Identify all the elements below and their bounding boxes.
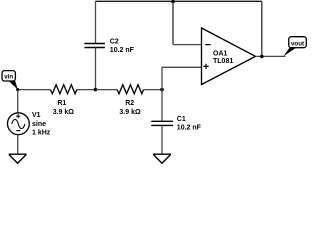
net label vin <box>2 71 18 90</box>
svg-text:R2: R2 <box>125 100 134 107</box>
svg-text:C2: C2 <box>110 39 119 46</box>
wire: R2 to node B <box>144 89 163 91</box>
wire: input node to R1 <box>18 89 51 91</box>
svg-text:3.9 kΩ: 3.9 kΩ <box>53 109 75 116</box>
wire: R1 to node A <box>77 89 96 91</box>
wire: C2 bottom lead <box>95 48 97 90</box>
node A <box>94 88 98 92</box>
wire: V1 top lead <box>17 90 19 113</box>
node: output junction <box>260 55 264 59</box>
ground: under V1 <box>9 154 27 163</box>
svg-text:C1: C1 <box>177 116 186 123</box>
wire: C1 bottom lead <box>161 125 163 154</box>
ground: under C1 <box>153 154 171 163</box>
svg-text:vin: vin <box>4 74 13 81</box>
resistor R2 <box>117 85 143 116</box>
wire: node B up to non-inverting input <box>162 67 202 89</box>
wire: node A to R2 <box>96 89 118 91</box>
svg-text:TL081: TL081 <box>213 58 233 65</box>
svg-text:10.2 nF: 10.2 nF <box>110 47 135 54</box>
wire: feedback vertical right <box>261 1 263 56</box>
node: input junction <box>16 88 19 91</box>
capacitor C1 <box>151 116 201 131</box>
wire: top feedback horizontal <box>96 0 262 2</box>
net label vout <box>284 37 307 57</box>
capacitor C2 <box>84 39 134 54</box>
voltage source V1 <box>8 112 51 136</box>
wire: C1 top lead <box>161 90 163 122</box>
svg-text:OA1: OA1 <box>213 50 228 57</box>
wire: inverting input horizontal branch <box>173 44 202 46</box>
svg-text:V1: V1 <box>32 112 41 119</box>
wire: op-amp output <box>256 55 286 57</box>
svg-text:1 kHz: 1 kHz <box>32 129 51 136</box>
svg-text:vout: vout <box>291 40 304 47</box>
wire: V1 bottom lead <box>17 135 19 154</box>
svg-text:sine: sine <box>32 121 46 128</box>
svg-text:10.2 nF: 10.2 nF <box>177 124 202 131</box>
node: junction on top wire <box>171 0 175 3</box>
wire: inverting input vertical branch <box>172 1 174 44</box>
node B <box>160 88 164 92</box>
op-amp OA1 TL081 <box>202 28 256 85</box>
svg-text:3.9 kΩ: 3.9 kΩ <box>119 109 141 116</box>
resistor R1 <box>50 85 76 116</box>
svg-text:R1: R1 <box>57 100 66 107</box>
wire: C2 top lead <box>95 1 97 43</box>
